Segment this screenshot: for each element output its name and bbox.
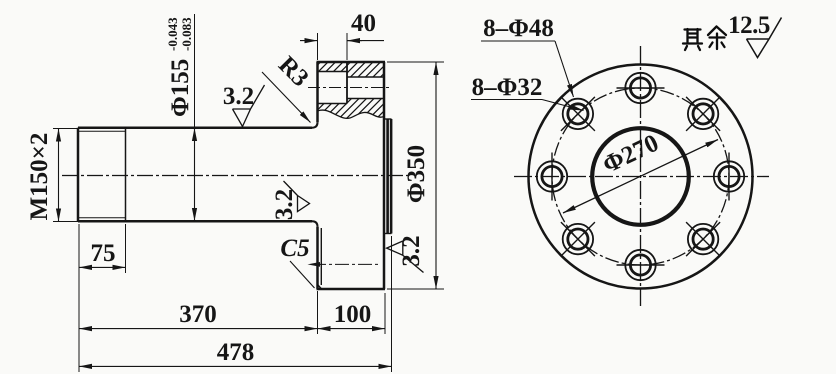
- dimension phi155 line: [194, 14, 196, 128]
- 其余 text hand drawn: [683, 27, 726, 51]
- hatch upper: [318, 62, 384, 77]
- wavy break line: [318, 110, 384, 118]
- vertical centerline: [640, 46, 642, 306]
- svg-text:C5: C5: [280, 235, 309, 262]
- svg-text:8–Φ48: 8–Φ48: [483, 15, 554, 42]
- R3 leader: [262, 72, 311, 123]
- bolt holes: [537, 73, 744, 280]
- svg-text:100: 100: [334, 301, 372, 328]
- horizontal centerline: [514, 176, 769, 178]
- diagonal cross NE: [686, 97, 720, 131]
- dimension 478: [79, 365, 392, 367]
- dimension 100: [318, 328, 386, 330]
- ext line right x391.5: [391, 236, 393, 372]
- hole 48 bottom edge: [318, 103, 347, 105]
- M150x2 ext ticks: [53, 128, 80, 130]
- svg-text:40: 40: [351, 10, 376, 37]
- hatch lower: [318, 99, 384, 119]
- svg-text:478: 478: [217, 339, 255, 366]
- tangential ticks N S: [617, 87, 665, 89]
- hole N: [625, 73, 655, 103]
- hole tick marks: [552, 88, 729, 265]
- glyph 其: [683, 29, 702, 50]
- diagonal cross SW: [561, 222, 595, 256]
- diagonal cross SE: [686, 222, 720, 256]
- arrow on lower centerline: [308, 262, 321, 267]
- ext line thread end: [125, 224, 127, 273]
- roughness 3.2 right bottom: [387, 241, 424, 273]
- center bore circle: [592, 128, 689, 225]
- dimension phi270: [563, 140, 718, 214]
- flange left face: [316, 62, 319, 289]
- phi155 text: [165, 17, 194, 117]
- hole 32 bottom edge: [347, 98, 384, 100]
- dimension 370: [79, 328, 318, 330]
- hole E: [714, 161, 744, 191]
- C5 leader: [290, 261, 315, 288]
- flange right face: [383, 62, 386, 289]
- dimension 40 ext lines: [317, 33, 319, 60]
- shaft outline: [78, 128, 312, 222]
- dimension M150x2: [58, 129, 60, 222]
- hole S: [625, 250, 655, 280]
- chamfer inner edge: [320, 228, 322, 285]
- hole SE: [688, 224, 718, 254]
- roughness 3.2 top: [233, 85, 265, 127]
- svg-text:Φ155: Φ155: [167, 59, 194, 117]
- hole NW: [563, 99, 593, 129]
- dimension 40: [300, 40, 318, 42]
- hole SW: [563, 224, 593, 254]
- ext line flange face down: [317, 291, 319, 334]
- svg-text:3.2: 3.2: [398, 235, 425, 266]
- svg-text:75: 75: [91, 240, 116, 267]
- roughness symbol top right: [747, 18, 782, 58]
- svg-text:8–Φ32: 8–Φ32: [472, 74, 543, 101]
- svg-text:M150×2: M150×2: [26, 133, 53, 221]
- spigot boss edge lines: [386, 119, 389, 234]
- underline 8-phi32: [471, 99, 542, 101]
- svg-text:-0.083: -0.083: [179, 17, 194, 51]
- svg-text:3.2: 3.2: [223, 83, 254, 110]
- shaft centerline: [62, 175, 409, 177]
- bolt circle: [552, 88, 729, 265]
- glyph 余: [708, 27, 726, 50]
- chamfer C5 line: [318, 285, 322, 290]
- spigot boss top edge: [384, 118, 392, 120]
- leader 8-phi48: [555, 41, 574, 97]
- underline 8-phi48: [481, 40, 555, 42]
- svg-text:Φ350: Φ350: [403, 145, 430, 203]
- hole NE: [688, 99, 718, 129]
- bolt hole lower centerline: [312, 263, 380, 265]
- dimension 75: [79, 266, 126, 268]
- flange bottom edge: [317, 288, 386, 291]
- fillet R3 bottom: [312, 221, 318, 227]
- ext line left x79: [78, 224, 80, 372]
- spigot boss bottom edge: [384, 233, 392, 235]
- svg-text:370: 370: [179, 301, 217, 328]
- svg-text:12.5: 12.5: [728, 12, 770, 39]
- diagonal cross NW: [561, 97, 595, 131]
- thread end line: [125, 128, 127, 222]
- counterbore step line: [346, 62, 348, 104]
- dimension phi350: [435, 62, 437, 289]
- flange top edge: [317, 61, 386, 64]
- leader 8-phi32: [542, 100, 584, 111]
- tangential ticks E W: [728, 153, 730, 201]
- svg-text:3.2: 3.2: [271, 189, 298, 220]
- fillet R3 top: [312, 122, 318, 128]
- thread minor diameter lines: [78, 130, 126, 132]
- hole 32 top edge: [347, 76, 384, 78]
- roughness 3.2 left middle: [284, 181, 310, 212]
- flange outer circle: [529, 65, 753, 289]
- phi350 ext lines: [387, 61, 444, 63]
- bolt hole upper centerline: [308, 87, 391, 89]
- hole 48 top edge: [318, 71, 347, 73]
- hole W: [537, 161, 567, 191]
- svg-text:-0.043: -0.043: [165, 17, 180, 51]
